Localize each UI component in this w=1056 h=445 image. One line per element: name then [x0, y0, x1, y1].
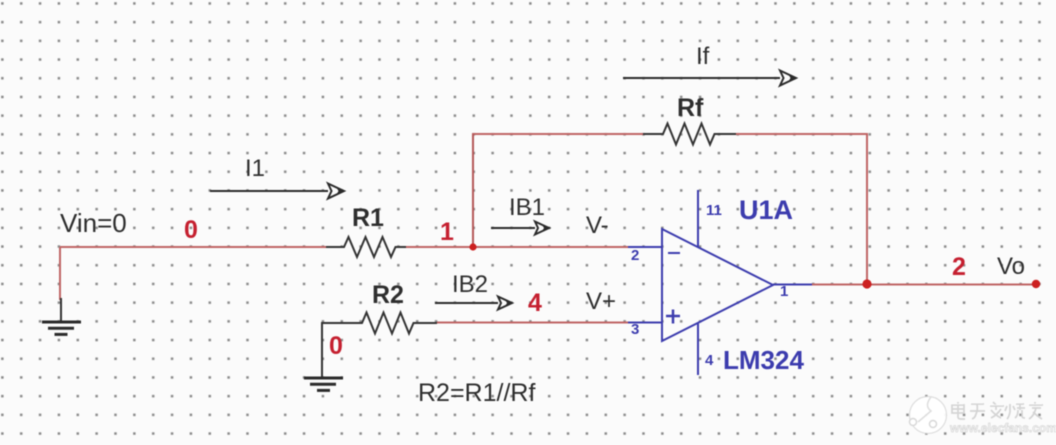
svg-text:1: 1 — [440, 218, 454, 246]
svg-text:V+: V+ — [586, 288, 616, 315]
svg-text:V-: V- — [586, 212, 609, 239]
svg-text:R2: R2 — [372, 281, 404, 309]
svg-text:11: 11 — [706, 202, 722, 219]
svg-text:R2=R1//Rf: R2=R1//Rf — [418, 379, 535, 407]
svg-text:4: 4 — [705, 352, 714, 369]
svg-text:R1: R1 — [352, 204, 384, 232]
svg-text:U1A: U1A — [739, 195, 793, 225]
svg-text:2: 2 — [631, 247, 639, 264]
svg-text:IB1: IB1 — [509, 194, 545, 221]
svg-text:LM324: LM324 — [723, 345, 804, 375]
svg-text:2: 2 — [952, 253, 966, 281]
svg-text:Vo: Vo — [997, 253, 1025, 280]
svg-text:1: 1 — [780, 283, 788, 300]
svg-text:I1: I1 — [245, 155, 265, 182]
svg-text:If: If — [696, 43, 710, 70]
svg-text:0: 0 — [329, 332, 343, 360]
svg-text:Rf: Rf — [677, 94, 704, 122]
svg-text:Vin=0: Vin=0 — [60, 208, 127, 238]
svg-text:IB2: IB2 — [452, 271, 488, 298]
svg-text:3: 3 — [631, 321, 639, 338]
svg-text:www.elecfans.com: www.elecfans.com — [949, 421, 1056, 435]
svg-text:0: 0 — [184, 216, 198, 244]
svg-text:4: 4 — [528, 289, 542, 317]
